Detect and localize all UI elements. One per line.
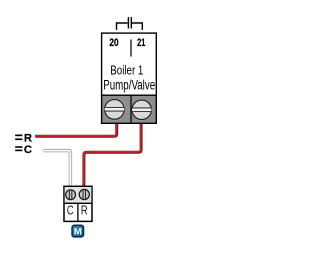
boiler box <box>102 33 157 95</box>
screw terminal 21 <box>131 100 152 119</box>
svg-text:21: 21 <box>137 37 145 49</box>
svg-text:R: R <box>81 203 88 218</box>
capacitor link symbol above terminals <box>117 17 143 30</box>
svg-text:20: 20 <box>109 37 118 49</box>
wire: red wire R-label to left terminal 20 <box>35 124 116 137</box>
svg-text:R: R <box>24 133 32 145</box>
divider between 20 and 21 <box>130 40 132 57</box>
motor screw C <box>66 190 76 200</box>
motor M symbol <box>72 225 83 237</box>
svg-text:Boiler 1: Boiler 1 <box>110 63 143 78</box>
motor terminal block <box>64 186 92 221</box>
wire: red wire terminal 21 to motor R <box>84 124 141 188</box>
svg-text:M: M <box>74 226 82 237</box>
terminal strip <box>102 95 157 123</box>
wire: white wire C-label to motor C <box>43 151 70 188</box>
svg-text:Pump/Valve: Pump/Valve <box>103 78 155 93</box>
motor screw R <box>79 189 89 199</box>
node C label stub <box>15 146 22 151</box>
svg-text:C: C <box>24 144 32 156</box>
svg-text:C: C <box>67 203 74 218</box>
screw terminal 20 <box>104 100 125 120</box>
node R label stub <box>15 135 22 141</box>
